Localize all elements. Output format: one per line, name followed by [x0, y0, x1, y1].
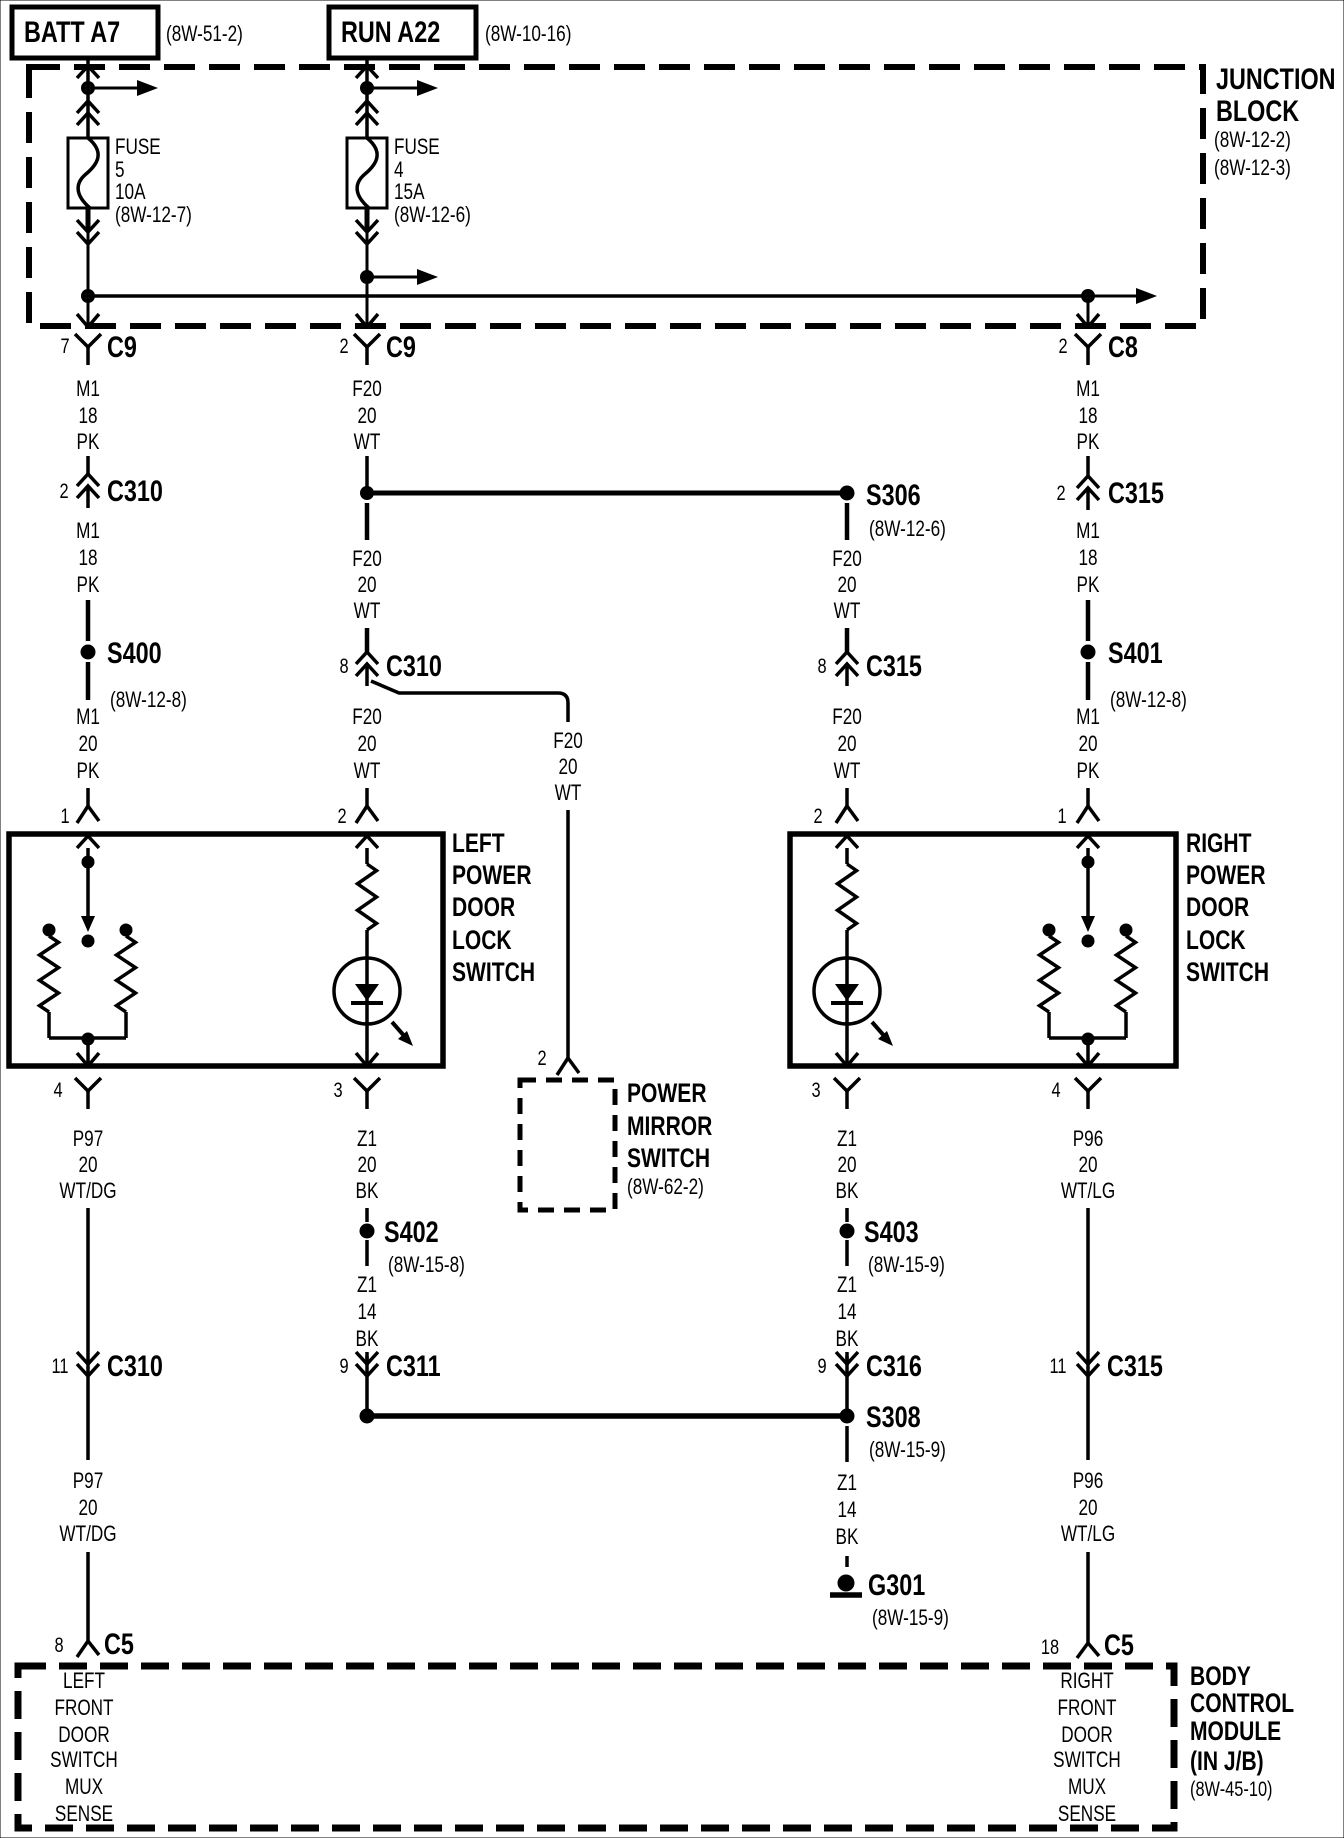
wire left resistor bottom — [49, 1012, 82, 1038]
connector C315 pin 8 symbol — [836, 652, 858, 686]
wire label M1 20 PK col D — [1076, 705, 1100, 784]
svg-text:MODULE: MODULE — [1190, 1717, 1281, 1747]
connector label C8 — [1108, 330, 1138, 363]
left switch resistor left — [40, 936, 59, 1012]
svg-text:20: 20 — [78, 1496, 97, 1521]
wire right box resistor bottoms — [1049, 1012, 1126, 1038]
wire col C below S308 — [845, 1426, 849, 1462]
wire col D below S401 — [1086, 662, 1091, 700]
pin 2 C8 — [1058, 334, 1067, 357]
svg-text:WT/DG: WT/DG — [59, 1522, 116, 1547]
svg-text:PK: PK — [1077, 759, 1100, 784]
wire col C above C316 — [845, 1356, 849, 1364]
right switch resistor left — [1040, 936, 1059, 1012]
connector arrows below fuse 4 — [356, 220, 378, 244]
svg-text:20: 20 — [1078, 732, 1097, 757]
right switch common node — [1082, 1033, 1095, 1046]
svg-text:POWER: POWER — [452, 861, 532, 891]
wire pin2 to resistor — [365, 848, 369, 864]
connector label C315 lower — [1107, 1349, 1163, 1382]
BCM right pin function label — [1053, 1669, 1121, 1827]
wire col D to right switch — [1086, 788, 1090, 806]
wire col D to C5 — [1086, 1552, 1090, 1643]
svg-text:Z1: Z1 — [837, 1127, 857, 1152]
left switch common node — [82, 1033, 95, 1046]
junction block dashed outline — [29, 67, 1203, 326]
svg-text:PK: PK — [1077, 430, 1100, 455]
svg-text:(8W-62-2): (8W-62-2) — [627, 1175, 704, 1200]
svg-text:C8: C8 — [1108, 330, 1138, 363]
svg-text:10A: 10A — [115, 180, 146, 205]
wire col A to C5 — [86, 1552, 90, 1641]
splice label S402 — [384, 1215, 439, 1248]
svg-text:RUN A22: RUN A22 — [341, 15, 440, 48]
wire LED through right — [845, 958, 849, 1064]
power feed box BATT A7 — [12, 7, 158, 58]
pin 2 power mirror — [537, 1046, 546, 1069]
connector label C315 pin8 — [866, 649, 922, 682]
wire label P97 20 WT/DG col A — [59, 1127, 116, 1204]
svg-text:(8W-12-6): (8W-12-6) — [869, 517, 946, 542]
splice S401 — [1081, 645, 1096, 660]
splice S402 — [360, 1224, 375, 1239]
svg-text:BK: BK — [356, 1327, 379, 1352]
pin 9 C311 — [339, 1354, 348, 1377]
left switch wiper node — [82, 935, 95, 948]
connector arrows col A — [77, 101, 99, 125]
connector label C310 upper — [107, 474, 163, 507]
svg-text:1: 1 — [1057, 804, 1066, 827]
svg-text:DOOR: DOOR — [1186, 893, 1249, 923]
pin 1 right connector symbol — [1077, 806, 1099, 823]
node splice below BATT — [81, 81, 95, 95]
svg-text:(IN J/B): (IN J/B) — [1190, 1747, 1264, 1777]
svg-text:RIGHT: RIGHT — [1186, 829, 1252, 859]
right switch lamp resistor — [838, 864, 857, 930]
fuse 4 labels — [394, 135, 471, 228]
splice S306 dot — [840, 486, 855, 501]
connector label C5 right — [1104, 1628, 1134, 1661]
connector label C310 pin8 — [386, 649, 442, 682]
svg-text:20: 20 — [78, 1153, 97, 1178]
wire LED through — [365, 958, 369, 1064]
svg-text:14: 14 — [837, 1498, 856, 1523]
svg-text:C5: C5 — [1104, 1628, 1134, 1661]
svg-text:POWER: POWER — [627, 1079, 707, 1109]
svg-text:M1: M1 — [76, 705, 100, 730]
body control module dashed box — [18, 1666, 1174, 1828]
wire label P97 20 WT/DG col A lower — [59, 1469, 116, 1547]
svg-text:G301: G301 — [868, 1568, 925, 1601]
left switch contact node left — [43, 924, 56, 937]
svg-text:FUSE: FUSE — [115, 135, 161, 160]
left switch arrow out pin3 — [356, 1053, 378, 1066]
svg-text:BK: BK — [836, 1525, 859, 1550]
svg-text:C315: C315 — [1107, 1349, 1163, 1382]
pin 11 C315 — [1049, 1354, 1066, 1377]
wire RUN A22 feed — [365, 58, 369, 138]
wire col C below C316 — [845, 1376, 849, 1409]
reference (8W-51-2) — [166, 22, 243, 47]
wire col A above S400 — [86, 600, 91, 641]
svg-text:2: 2 — [1058, 334, 1067, 357]
svg-text:BK: BK — [836, 1327, 859, 1352]
wire label M1 18 PK col A second — [76, 519, 100, 598]
wire splice bus S306 — [367, 491, 847, 496]
svg-text:11: 11 — [51, 1354, 68, 1377]
wire col C to ground — [845, 1556, 849, 1567]
svg-text:LOCK: LOCK — [452, 926, 512, 956]
svg-text:2: 2 — [813, 804, 822, 827]
splice S400 — [81, 645, 96, 660]
wire col B above S306 — [365, 456, 369, 493]
svg-text:(8W-15-9): (8W-15-9) — [869, 1438, 946, 1463]
right switch wiper node — [1082, 935, 1095, 948]
svg-text:9: 9 — [339, 1354, 348, 1377]
svg-text:S400: S400 — [107, 636, 162, 669]
svg-text:BLOCK: BLOCK — [1216, 94, 1300, 127]
svg-text:20: 20 — [558, 755, 577, 780]
connector C8 pin 2 symbol — [1075, 334, 1101, 365]
splice S403 — [840, 1224, 855, 1239]
right switch arrow in pin1 — [1077, 836, 1099, 848]
connector pin 3 below right switch — [834, 1078, 860, 1109]
wire right switch to pin4 — [1086, 1045, 1090, 1064]
svg-text:SWITCH: SWITCH — [1186, 958, 1269, 988]
connector C315 pin 11 symbol — [1077, 1352, 1099, 1376]
svg-text:C9: C9 — [386, 330, 416, 363]
wire label F20 20 WT col C — [832, 547, 862, 624]
svg-text:F20: F20 — [553, 729, 583, 754]
wire col D above S401 — [1086, 600, 1091, 641]
svg-text:(8W-15-9): (8W-15-9) — [868, 1253, 945, 1278]
svg-text:(8W-15-8): (8W-15-8) — [388, 1253, 465, 1278]
svg-text:MUX: MUX — [65, 1775, 103, 1800]
connector label C311 — [386, 1349, 441, 1382]
pin 2 C315 — [1056, 481, 1065, 504]
svg-text:C9: C9 — [107, 330, 137, 363]
connector C5 pin 18 symbol — [1077, 1643, 1099, 1658]
pin 2 connector symbol — [356, 806, 378, 823]
svg-text:PK: PK — [77, 759, 100, 784]
ground G301 — [830, 1575, 862, 1596]
svg-text:PK: PK — [77, 573, 100, 598]
arrow out of junction block col D — [1077, 314, 1099, 327]
svg-text:SWITCH: SWITCH — [50, 1748, 118, 1773]
svg-text:WT/DG: WT/DG — [59, 1179, 116, 1204]
svg-text:Z1: Z1 — [357, 1127, 377, 1152]
svg-text:S403: S403 — [864, 1215, 919, 1248]
svg-text:WT: WT — [834, 759, 861, 784]
reference (8W-10-16) — [485, 22, 571, 47]
connector C9 pin 2 symbol — [354, 334, 380, 365]
wire label Z1 20 BK col C — [836, 1127, 859, 1204]
svg-text:20: 20 — [357, 732, 376, 757]
connector arrows below fuse 5 — [77, 220, 99, 244]
splice label S401 — [1108, 636, 1163, 669]
svg-text:7: 7 — [60, 334, 69, 357]
connector C310 pin 2 symbol — [77, 474, 99, 508]
svg-text:P97: P97 — [73, 1127, 104, 1152]
wire stub col C below S306 — [845, 503, 850, 540]
left switch lamp resistor — [358, 864, 377, 930]
svg-text:(8W-12-6): (8W-12-6) — [394, 203, 471, 228]
svg-text:WT: WT — [834, 599, 861, 624]
wire col B to C9 — [366, 296, 369, 327]
pin 9 C316 — [817, 1354, 826, 1377]
power feed box RUN A22 — [329, 7, 476, 58]
junction block label — [1214, 62, 1336, 180]
pin 4 label left — [53, 1078, 62, 1101]
svg-text:20: 20 — [1078, 1153, 1097, 1178]
svg-text:18: 18 — [78, 404, 97, 429]
svg-text:20: 20 — [837, 1153, 856, 1178]
branch arrow right col A — [94, 80, 158, 96]
wire left switch to pin4 — [86, 1045, 90, 1064]
wire label Z1 14 BK col B — [356, 1273, 379, 1352]
connector arrows col B — [356, 101, 378, 125]
pin 2 right switch — [813, 804, 822, 827]
svg-text:Z1: Z1 — [837, 1273, 857, 1298]
branch arrow right col B lower — [373, 269, 438, 285]
splice S308 — [840, 1409, 855, 1424]
splice S306 node — [360, 486, 374, 500]
svg-text:SENSE: SENSE — [1058, 1802, 1116, 1827]
svg-text:2: 2 — [59, 479, 68, 502]
pin 2 C9 — [339, 334, 348, 357]
left power door lock switch box — [9, 834, 443, 1066]
svg-text:WT/LG: WT/LG — [1061, 1179, 1115, 1204]
wire col D above C315 — [1086, 456, 1090, 476]
wire label M1 20 PK col A — [76, 705, 100, 784]
pin 2 C310 — [59, 479, 68, 502]
svg-text:20: 20 — [837, 732, 856, 757]
pin 3 label right — [811, 1078, 820, 1101]
svg-text:14: 14 — [357, 1300, 376, 1325]
power mirror switch dashed box — [520, 1080, 615, 1210]
wire col A to C9 — [87, 296, 90, 327]
reference S400 — [110, 688, 187, 713]
left switch node top — [82, 848, 95, 869]
arrow out of junction block col A — [77, 314, 99, 327]
svg-text:SENSE: SENSE — [55, 1802, 113, 1827]
ground label G301 — [868, 1568, 925, 1601]
svg-text:F20: F20 — [832, 547, 862, 572]
svg-text:M1: M1 — [76, 377, 100, 402]
svg-text:F20: F20 — [352, 547, 382, 572]
svg-text:C315: C315 — [1108, 476, 1164, 509]
node junction col D on bus — [1081, 289, 1095, 303]
svg-text:4: 4 — [394, 158, 404, 183]
svg-text:WT: WT — [555, 781, 582, 806]
wire label M1 18 PK col D second — [1076, 519, 1100, 598]
right switch node top — [1082, 848, 1095, 869]
svg-text:P96: P96 — [1073, 1127, 1104, 1152]
svg-text:S308: S308 — [866, 1400, 921, 1433]
wire right pin2 to resistor — [845, 848, 849, 864]
svg-text:LEFT: LEFT — [452, 829, 505, 859]
connector label C315 upper — [1108, 476, 1164, 509]
svg-text:2: 2 — [337, 804, 346, 827]
right switch contact node right — [1120, 924, 1133, 937]
svg-text:8: 8 — [339, 654, 348, 677]
svg-text:(8W-12-3): (8W-12-3) — [1214, 156, 1291, 181]
svg-text:20: 20 — [1078, 1496, 1097, 1521]
wire label Z1 20 BK col B — [356, 1127, 379, 1204]
svg-text:WT/LG: WT/LG — [1061, 1522, 1115, 1547]
body control module label — [1190, 1662, 1294, 1801]
svg-text:FUSE: FUSE — [394, 135, 440, 160]
svg-text:(8W-45-10): (8W-45-10) — [1190, 1777, 1273, 1800]
svg-text:20: 20 — [837, 573, 856, 598]
svg-text:C310: C310 — [386, 649, 442, 682]
right power door lock switch box — [790, 834, 1176, 1066]
left switch label — [452, 829, 535, 988]
svg-text:SWITCH: SWITCH — [1053, 1748, 1121, 1773]
svg-text:S401: S401 — [1108, 636, 1163, 669]
connector label C9 mid — [386, 330, 416, 363]
left switch resistor right — [117, 936, 136, 1012]
connector pin 4 below right switch — [1075, 1078, 1101, 1109]
pin 2 right connector symbol — [836, 806, 858, 823]
wire col B to S402 — [365, 1208, 369, 1222]
left switch arrow out pin4 — [77, 1053, 99, 1066]
connector C310 pin 8 symbol — [356, 652, 378, 686]
svg-text:Z1: Z1 — [357, 1273, 377, 1298]
wire col A long run — [86, 1208, 90, 1352]
svg-text:3: 3 — [811, 1078, 820, 1101]
arrow out of junction block col B — [356, 314, 378, 327]
wire splice bus S308 — [367, 1413, 847, 1419]
connector C311 pin 9 symbol — [356, 1352, 378, 1376]
pin 2 power mirror connector — [557, 1058, 579, 1075]
svg-text:MIRROR: MIRROR — [627, 1112, 712, 1142]
svg-text:M1: M1 — [1076, 705, 1100, 730]
bus arrow right end — [1094, 288, 1157, 304]
svg-text:(8W-12-2): (8W-12-2) — [1214, 128, 1291, 153]
svg-text:C311: C311 — [386, 1349, 441, 1382]
wire col D to C8 — [1087, 296, 1090, 327]
pin 11 C310 — [51, 1354, 68, 1377]
svg-text:WT: WT — [354, 430, 381, 455]
svg-text:CONTROL: CONTROL — [1190, 1689, 1294, 1719]
svg-text:BK: BK — [356, 1179, 379, 1204]
left switch arrow in pin1 — [77, 836, 99, 848]
right switch resistor right — [1117, 936, 1136, 1012]
svg-text:DOOR: DOOR — [452, 893, 515, 923]
svg-text:9: 9 — [817, 1354, 826, 1377]
wire col B above C310 pin8 — [365, 628, 370, 652]
svg-text:(8W-12-7): (8W-12-7) — [115, 203, 192, 228]
wire label F20 20 WT col B — [352, 377, 382, 455]
wire col A to left switch — [86, 788, 90, 806]
wire col B above C311 — [365, 1356, 369, 1364]
node junction col A on bus — [81, 289, 95, 303]
svg-text:FRONT: FRONT — [1057, 1696, 1116, 1721]
connector label C310 lower — [107, 1349, 163, 1382]
wire label F20 20 WT branch — [553, 729, 583, 806]
wire label F20 20 WT col C second — [832, 705, 862, 784]
node splice below RUN — [360, 81, 374, 95]
wire label Z1 14 BK col C lower — [836, 1471, 859, 1550]
wire right resistor bottom — [94, 1012, 126, 1038]
wire resistor to LED — [365, 930, 369, 958]
svg-text:4: 4 — [53, 1078, 62, 1101]
pin 4 label right — [1051, 1078, 1060, 1101]
pin 1 right switch — [1057, 804, 1066, 827]
right switch arrow out pin3 — [836, 1053, 858, 1066]
svg-text:BODY: BODY — [1190, 1662, 1251, 1692]
svg-text:18: 18 — [1078, 404, 1097, 429]
connector C9 pin 7 symbol — [75, 334, 101, 365]
wire label P96 20 WT/LG col D — [1061, 1127, 1115, 1204]
fuse 4 15A — [347, 138, 387, 208]
arrow into junction block col B — [356, 66, 378, 78]
wire fuse 5 output — [86, 208, 91, 296]
splice node col B S308 — [360, 1409, 375, 1424]
svg-text:S306: S306 — [866, 478, 921, 511]
svg-text:2: 2 — [339, 334, 348, 357]
svg-text:(8W-51-2): (8W-51-2) — [166, 22, 243, 47]
connector C310 pin 11 symbol — [77, 1352, 99, 1376]
svg-text:4: 4 — [1051, 1078, 1060, 1101]
svg-text:C316: C316 — [866, 1349, 922, 1382]
wire col A below S400 — [86, 662, 91, 700]
wire BATT A7 feed — [86, 58, 90, 138]
connector pin 3 below left switch — [354, 1078, 380, 1109]
connector C316 pin 9 symbol — [836, 1352, 858, 1376]
wire label F20 20 WT col B second — [352, 547, 382, 624]
svg-text:(8W-12-8): (8W-12-8) — [1110, 688, 1187, 713]
reference S306 — [869, 517, 946, 542]
reference S401 — [1110, 688, 1187, 713]
svg-text:C310: C310 — [107, 474, 163, 507]
connector C315 pin 2 symbol — [1077, 476, 1099, 510]
node branch col B — [360, 270, 374, 284]
svg-text:BK: BK — [836, 1179, 859, 1204]
svg-text:18: 18 — [1041, 1635, 1059, 1658]
svg-text:LOCK: LOCK — [1186, 926, 1246, 956]
wire resistor to LED right — [845, 930, 849, 958]
svg-text:2: 2 — [537, 1046, 546, 1069]
svg-text:20: 20 — [357, 1153, 376, 1178]
wire label F20 20 WT col B third — [352, 705, 382, 784]
svg-text:20: 20 — [357, 404, 376, 429]
reference S402 — [388, 1253, 465, 1278]
svg-text:14: 14 — [837, 1300, 856, 1325]
wire col A above C310 — [86, 456, 90, 474]
svg-text:20: 20 — [78, 732, 97, 757]
svg-text:MUX: MUX — [1068, 1775, 1106, 1800]
svg-text:F20: F20 — [352, 705, 382, 730]
wire col B below C311 — [365, 1376, 369, 1409]
wire col C to right switch — [845, 788, 849, 806]
svg-text:WT: WT — [354, 599, 381, 624]
right switch wiper arrow — [1081, 868, 1095, 932]
svg-text:C315: C315 — [866, 649, 922, 682]
left switch contact node right — [120, 924, 133, 937]
svg-text:(8W-10-16): (8W-10-16) — [485, 22, 571, 47]
svg-text:F20: F20 — [832, 705, 862, 730]
pin 7 — [60, 334, 69, 357]
pin 2 left switch — [337, 804, 346, 827]
splice label S403 — [864, 1215, 919, 1248]
svg-text:18: 18 — [78, 546, 97, 571]
svg-text:PK: PK — [77, 430, 100, 455]
fuse 5 labels — [115, 135, 192, 228]
connector label C9 left — [107, 330, 137, 363]
reference G301 — [872, 1606, 949, 1631]
